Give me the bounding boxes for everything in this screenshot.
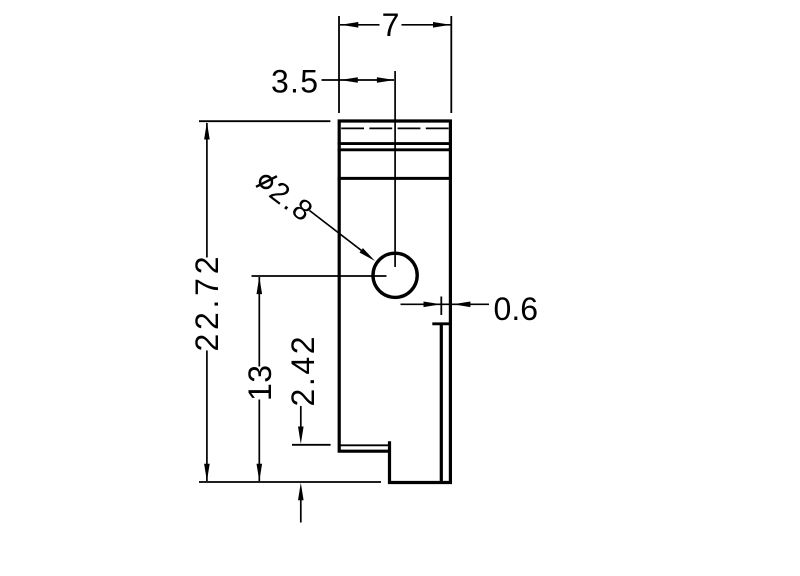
- diameter symbol slash: [256, 176, 277, 187]
- inner wall (vertical): [440, 324, 443, 482]
- groove line upper: [338, 142, 452, 145]
- leader arrow: [360, 248, 376, 261]
- dimension line 13 upper segment: [258, 277, 260, 367]
- svg-text:0.6: 0.6: [494, 291, 539, 327]
- extension line left of dim 7: [338, 16, 340, 113]
- dimension line 3.5: [322, 79, 395, 81]
- arrow 13 bottom: [257, 464, 263, 482]
- arrow 0.6 pointing right: [424, 302, 442, 308]
- hidden dashed line near top: [341, 127, 449, 129]
- dimension line 7 left segment: [340, 24, 380, 26]
- dimension line 13 lower segment: [258, 400, 260, 482]
- svg-text:22.72: 22.72: [189, 257, 225, 352]
- leader line for diameter 2.8: [310, 211, 369, 256]
- arrow 3.5 right: [377, 77, 395, 83]
- step inner edge (thin): [339, 444, 388, 446]
- arrow 2.42 down: [298, 427, 304, 445]
- svg-text:13: 13: [242, 365, 278, 401]
- svg-text:7: 7: [382, 7, 400, 43]
- inner wall top cap: [432, 322, 450, 325]
- shoulder line: [338, 177, 452, 180]
- hole circle (diameter 2.8): [373, 253, 417, 297]
- extension tick for 0.6: [440, 297, 442, 316]
- arrow 22.72 top: [204, 122, 210, 140]
- svg-text:3.5: 3.5: [271, 64, 318, 100]
- dimension line 22.72 upper segment: [206, 123, 208, 258]
- extension line 2.42 at step: [292, 444, 331, 446]
- diameter symbol circle: [260, 176, 272, 188]
- horizontal center mark / 13 extension line: [252, 275, 387, 277]
- arrow 22.72 bottom: [204, 464, 210, 482]
- arrow 13 top: [257, 277, 263, 295]
- extension line bottom shared: [199, 481, 381, 483]
- extension line right of dim 7: [450, 16, 452, 113]
- arrow 2.42 up: [298, 483, 304, 501]
- dimension line 7 right segment: [402, 24, 451, 26]
- arrow 0.6 pointing left: [453, 302, 471, 308]
- arrow 3.5 left: [340, 77, 358, 83]
- part outline (main profile): [339, 121, 450, 483]
- arrow 7 right: [433, 22, 451, 28]
- dimension line 2.42 lower tail: [300, 500, 302, 523]
- arrow 7 left: [341, 22, 359, 28]
- vertical center line: [394, 71, 396, 267]
- extension line top for 22.72: [199, 120, 330, 122]
- dimension line 0.6: [401, 303, 490, 305]
- svg-text:2.42: 2.42: [285, 337, 321, 407]
- dimension line 22.72 lower segment: [206, 351, 208, 482]
- groove line lower: [338, 148, 452, 151]
- dimension line 2.42 upper tail: [300, 406, 302, 427]
